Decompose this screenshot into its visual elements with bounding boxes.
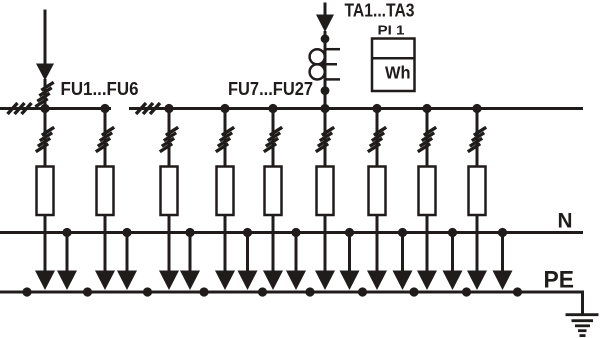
svg-text:N: N (558, 209, 573, 233)
svg-text:TA1...TA3: TA1...TA3 (345, 0, 415, 20)
svg-text:FU7...FU27: FU7...FU27 (228, 78, 313, 99)
svg-text:FU1...FU6: FU1...FU6 (61, 78, 139, 99)
svg-text:Wh: Wh (385, 63, 411, 83)
svg-text:PE: PE (544, 266, 575, 293)
svg-text:PI 1: PI 1 (378, 24, 405, 38)
